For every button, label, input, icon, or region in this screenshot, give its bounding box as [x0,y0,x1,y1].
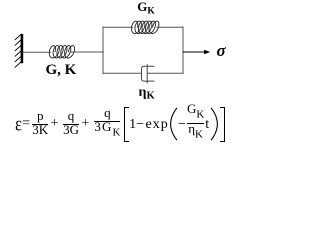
right edge [182,27,184,74]
wire: spring to box node [71,51,104,53]
bottom edge right segment (piston rod) [148,72,184,74]
fixed wall [15,34,23,67]
top edge right segment [157,26,183,28]
spring GK (top branch) [132,21,159,33]
top edge left segment [103,26,133,28]
diagram: Kelvin (standard linear solid) model [0,0,234,151]
label sigma [217,42,226,59]
spring G,K [49,46,74,58]
label G, K (left spring) [46,63,77,78]
Kelvin box frame [103,27,183,74]
label GK (top spring) [137,0,155,17]
wire: wall to spring G,K [23,51,50,53]
equation epsilon = p/3K + q/3G + q/3GK [1 - exp(-GK/etaK t)] [15,105,225,143]
label etaK (dashpot) [139,86,155,102]
left edge [102,27,104,74]
bottom edge left segment [103,72,142,74]
dashpot etaK (bottom branch) [142,65,155,83]
stress arrow [183,50,210,55]
